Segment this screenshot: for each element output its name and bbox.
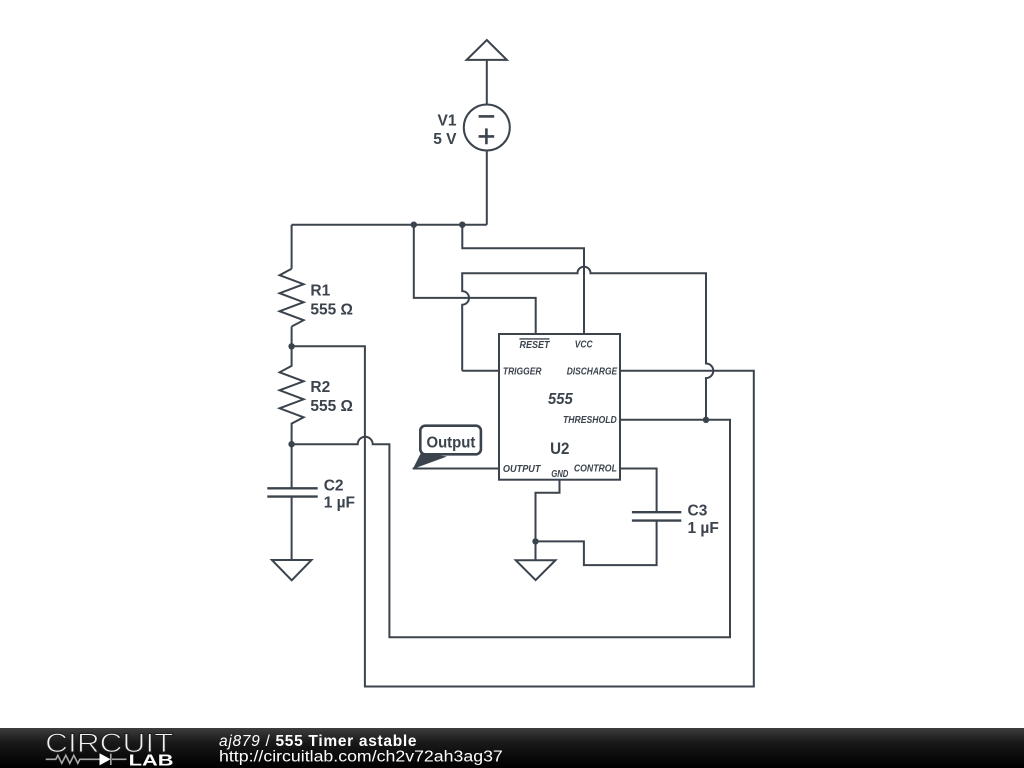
wire top rail	[292, 224, 487, 226]
svg-text:TRIGGER: TRIGGER	[503, 366, 542, 378]
node B R2/C2	[288, 441, 294, 447]
svg-text:C2: C2	[324, 477, 344, 494]
node THRESHOLD-TRIGGER	[703, 417, 709, 423]
svg-text:http://circuitlab.com/ch2v72ah: http://circuitlab.com/ch2v72ah3ag37	[219, 749, 503, 766]
svg-text:V1: V1	[438, 113, 457, 130]
svg-text:1 µF: 1 µF	[324, 494, 355, 511]
node rail-RESET	[411, 222, 417, 228]
node A R1/R2	[288, 343, 294, 349]
svg-text:DISCHARGE: DISCHARGE	[567, 366, 618, 378]
svg-text:LAB: LAB	[129, 753, 174, 768]
svg-text:GND: GND	[551, 468, 568, 480]
wire OUTPUT pin to flag	[413, 468, 499, 470]
Output flag callout	[413, 426, 481, 469]
wire TRIGGER net (hops over RESET wire)	[462, 267, 713, 420]
wire power flag to V1	[486, 60, 488, 105]
svg-text:R1: R1	[310, 282, 330, 299]
svg-text:VCC: VCC	[575, 339, 593, 351]
ground below C2	[272, 560, 312, 580]
wire RESET net	[414, 225, 536, 334]
svg-text:1 µF: 1 µF	[688, 520, 719, 537]
wire V1 to top rail	[486, 151, 488, 225]
wire node B to THRESHOLD (inner loop, hop over vertical)	[292, 420, 730, 637]
svg-text:555 Ω: 555 Ω	[310, 301, 353, 318]
svg-text:RESET: RESET	[520, 339, 551, 351]
svg-text:555: 555	[548, 391, 574, 408]
wire R1 to node A	[291, 327, 293, 347]
node junction dots	[288, 222, 709, 545]
CircuitLab logo mini schematic: wire resistor diode	[46, 754, 127, 765]
svg-text:5 V: 5 V	[433, 131, 457, 148]
svg-text:Output: Output	[427, 434, 476, 451]
svg-text:OUTPUT: OUTPUT	[503, 463, 542, 475]
wire rail to R1	[291, 225, 293, 269]
voltage source V1	[464, 105, 510, 151]
resistor R2	[280, 346, 304, 444]
wire CONTROL to C3	[620, 469, 657, 513]
svg-text:aj879 / 555 Timer astable: aj879 / 555 Timer astable	[219, 733, 417, 750]
node GND-C3	[532, 538, 538, 544]
svg-text:CONTROL: CONTROL	[574, 463, 617, 475]
wire node A to DISCHARGE (outer loop)	[292, 346, 754, 686]
power flag VCC (supply arrow)	[467, 40, 507, 60]
capacitor C2	[291, 444, 293, 488]
ground below GND	[516, 560, 556, 580]
op-amp U2 box (555 timer)	[499, 334, 620, 480]
node rail-VCC	[459, 222, 465, 228]
svg-text:R2: R2	[310, 379, 330, 396]
svg-text:555 Ω: 555 Ω	[310, 398, 353, 415]
svg-text:THRESHOLD: THRESHOLD	[563, 414, 617, 426]
svg-text:C3: C3	[688, 503, 708, 520]
wire GND pin	[536, 480, 560, 542]
wire VCC net	[462, 225, 584, 334]
resistor R1	[280, 269, 304, 327]
svg-text:U2: U2	[550, 440, 569, 458]
pin labels U2	[503, 339, 618, 481]
component labels	[310, 113, 718, 537]
capacitor C3	[632, 512, 681, 520]
